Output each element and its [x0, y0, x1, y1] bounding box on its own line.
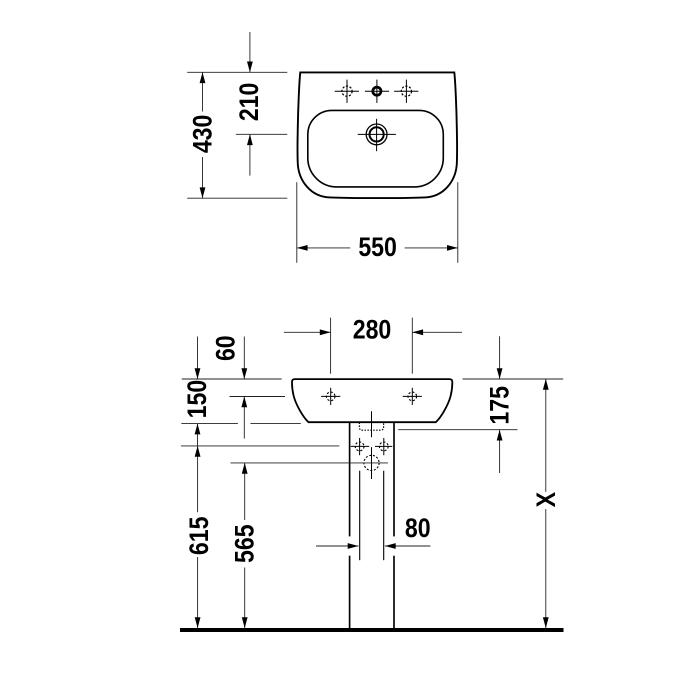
- siphon circle (dashed): [364, 455, 379, 470]
- svg-text:565: 565: [230, 524, 260, 563]
- dimension 550 extension line right: [457, 182, 459, 263]
- svg-text:150: 150: [182, 380, 212, 419]
- dimension 430 line and arrows: [202, 72, 204, 198]
- tap hole center (solid): [365, 80, 389, 103]
- svg-text:80: 80: [405, 513, 431, 543]
- fixing-hole axis extension line: [181, 445, 339, 447]
- front view top edge extension line right: [463, 378, 564, 380]
- dimension 150 line and arrows: [197, 337, 199, 446]
- tap hole left (dashed): [335, 80, 359, 103]
- center line: [371, 411, 373, 437]
- svg-text:60: 60: [211, 335, 241, 361]
- dimension 430 extension line bottom: [187, 197, 287, 199]
- fixing hole right (pedestal): [375, 438, 392, 455]
- basin bottom extension line (left, with gap): [181, 423, 300, 425]
- svg-text:X: X: [531, 492, 561, 508]
- center line lower / big circle vertical axis: [371, 447, 373, 479]
- dimension 550 line and arrows: [297, 247, 458, 249]
- mounting-hole axis extension line: [230, 396, 286, 398]
- svg-text:210: 210: [234, 83, 264, 122]
- svg-text:430: 430: [188, 115, 218, 154]
- front view top edge extension line left: [182, 378, 282, 380]
- dimension X line and arrows: [545, 379, 547, 628]
- dimension 280 line and arrows: [284, 331, 462, 333]
- tap hole right (dashed): [394, 80, 418, 103]
- drain pipe left line: [359, 471, 361, 561]
- dimension 430 extension line top: [187, 71, 287, 73]
- drain (top view): [358, 119, 396, 151]
- dimension 565 extension line / siphon axis: [231, 462, 388, 464]
- washbasin profile (front view): [292, 379, 452, 422]
- dimension 210 extension line (drain axis): [236, 133, 287, 135]
- dimension 80 line and arrows: [316, 545, 430, 547]
- dimension 175 line and arrows: [499, 336, 501, 473]
- pedestal left edge: [349, 422, 351, 628]
- bracket bottom extension line (right): [398, 429, 517, 431]
- drain pipe right line: [383, 471, 385, 561]
- dimension 280 extension lines: [331, 318, 413, 374]
- overflow bracket (dashed): [359, 423, 383, 431]
- dimension 615 line and arrows: [197, 446, 199, 628]
- washbasin inner basin outline (top view): [308, 110, 444, 186]
- mounting hole right (front view): [403, 388, 422, 405]
- dimension 550 extension line left: [296, 182, 298, 263]
- svg-text:615: 615: [184, 517, 214, 556]
- svg-text:280: 280: [353, 315, 392, 345]
- dimension 60 line and arrows: [243, 337, 245, 439]
- washbasin outer outline (top view): [297, 72, 457, 198]
- floor line: [180, 628, 564, 632]
- svg-text:175: 175: [485, 386, 515, 425]
- mounting hole left (front view): [321, 388, 340, 405]
- dimension 565 line and arrows: [244, 463, 246, 628]
- fixing hole left (pedestal): [351, 438, 369, 455]
- svg-text:550: 550: [358, 232, 397, 262]
- pedestal right edge: [393, 422, 395, 628]
- dimension 210 line and arrows: [249, 32, 251, 176]
